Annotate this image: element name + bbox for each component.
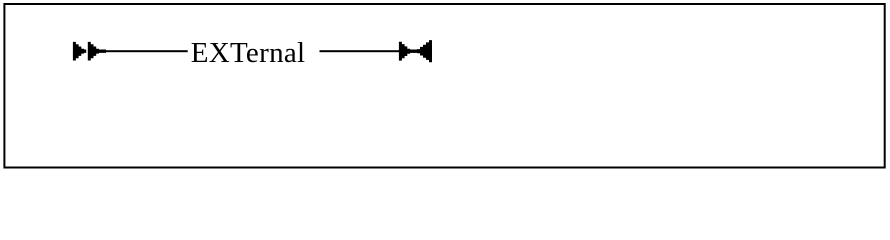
wire from start arrows to keyword [105,50,188,52]
wire from keyword to end symbol [320,50,400,52]
end-of-diagram left arrowhead [414,40,432,62]
end-of-diagram right arrowhead [399,42,415,61]
start-of-diagram arrowhead 1 [73,42,86,61]
svg-text:EXTernal: EXTernal [191,37,306,69]
start-of-diagram arrowhead 2 [88,42,106,61]
